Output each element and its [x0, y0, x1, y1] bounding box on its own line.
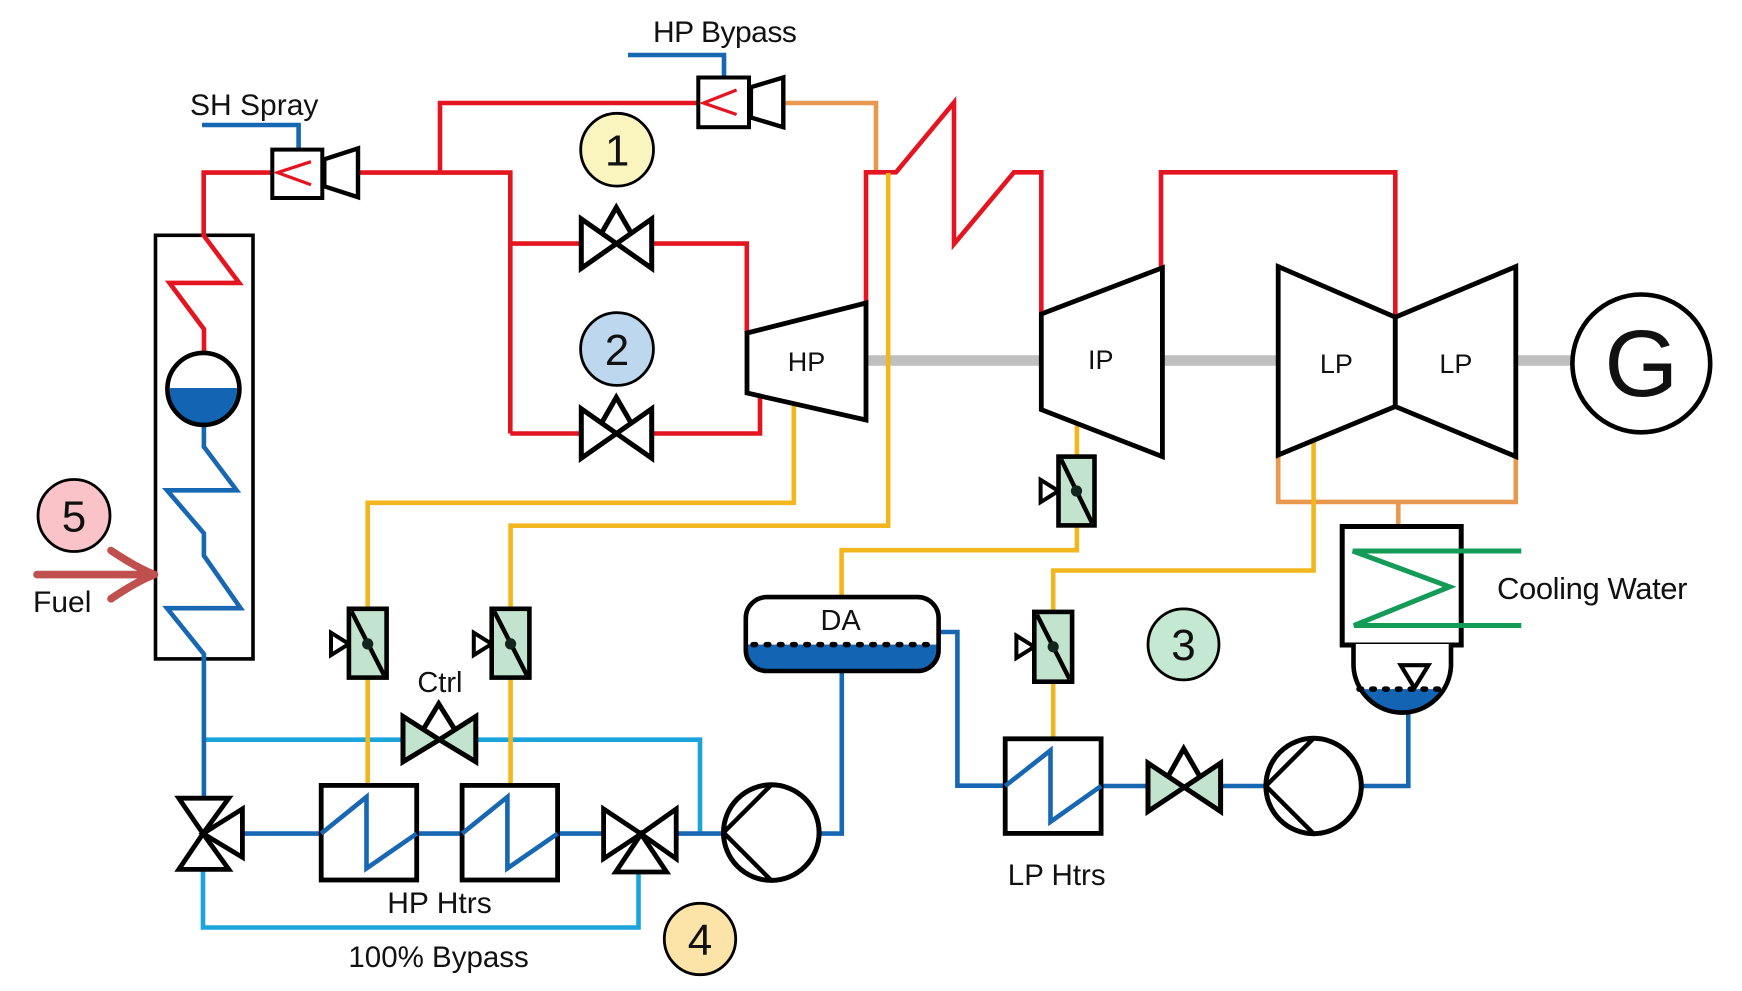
wire shaft LP-G [1515, 355, 1574, 366]
wire LP heater to condensate valve [1100, 784, 1149, 789]
wire main steam spray valve to valves junction [356, 173, 510, 434]
svg-text:HP Bypass: HP Bypass [653, 16, 796, 49]
wire HP bypass water line [628, 55, 724, 79]
cyan bypass pipes [203, 740, 700, 928]
wire boiler downcomer [202, 656, 207, 799]
marker circle 5 [38, 480, 110, 552]
wire LP exhaust header [1278, 454, 1516, 502]
svg-text:Cooling Water: Cooling Water [1497, 571, 1687, 606]
svg-text:4: 4 [688, 916, 712, 965]
dark blue water pipes [202, 55, 1408, 834]
extraction control valve HP1 [331, 609, 387, 678]
extraction control valve IP [1041, 457, 1095, 526]
wire IP extraction to deaerator [842, 423, 1077, 600]
three-way valve at boiler [179, 798, 243, 869]
SH spray attemperator [272, 148, 358, 198]
svg-text:2: 2 [605, 326, 629, 375]
wire HP bypass discharge [782, 103, 876, 170]
wire condensate valve to condensate pump [1220, 784, 1267, 789]
wire LP exhaust to condenser [1396, 502, 1401, 525]
condensate control valve [1148, 749, 1221, 812]
wire 100% bypass line [203, 868, 639, 928]
wire SH spray water line [202, 125, 299, 151]
LP heater [1005, 739, 1101, 834]
wire LP extraction to LP heater [1053, 440, 1313, 739]
wire pump valve to feed pump [675, 831, 724, 836]
svg-text:LP Htrs: LP Htrs [1008, 859, 1106, 892]
steam drum [167, 353, 239, 425]
wire HP heater 2 to pump valve [557, 831, 605, 836]
marker circle 1 [581, 113, 654, 186]
control valve Ctrl [403, 704, 476, 762]
marker circle 4 [664, 903, 735, 974]
svg-text:G: G [1604, 311, 1678, 417]
cooling water coil [1353, 551, 1522, 626]
svg-text:1: 1 [605, 127, 629, 176]
wire feed pump to deaerator [818, 669, 842, 834]
svg-text:5: 5 [62, 492, 86, 541]
wire condensate pump to hotwell [1361, 712, 1409, 786]
svg-text:IP: IP [1088, 345, 1114, 375]
turbine LP right [1395, 267, 1516, 457]
condenser [1342, 527, 1521, 646]
boiler superheater coil [170, 236, 240, 355]
wire valve 2 admission line [510, 396, 760, 434]
svg-text:SH Spray: SH Spray [190, 89, 318, 122]
deaerator DA [746, 597, 939, 671]
svg-text:Fuel: Fuel [33, 586, 91, 619]
svg-text:LP: LP [1320, 349, 1353, 379]
wire main steam boiler to spray valve [204, 173, 274, 237]
boiler evaporator coil [167, 424, 241, 660]
HP heater 2 [462, 785, 557, 880]
red steam pipes [204, 103, 1396, 434]
wire deaerator to LP heater [937, 632, 1006, 786]
svg-text:DA: DA [820, 605, 861, 637]
wire main steam branch up to HP bypass [440, 103, 700, 173]
svg-text:3: 3 [1171, 621, 1195, 670]
wire three-way valve to HP heater 1 [241, 831, 322, 836]
wire control valve line [203, 740, 700, 835]
condensate pump [1266, 738, 1361, 833]
wire hot reheat IP to LP [1161, 172, 1395, 318]
shaft [866, 355, 1574, 366]
yellow extraction pipes [368, 173, 1314, 785]
stop valve 1 [581, 208, 651, 269]
extraction control valve HP2 [474, 609, 530, 678]
marker circle 3 [1148, 609, 1219, 680]
orange pipes [782, 103, 1516, 525]
boiler [156, 235, 254, 659]
wire valve 1 admission line [510, 244, 747, 334]
wire cold reheat and reheater coil to IP [866, 103, 1041, 316]
stop valve 2 [581, 397, 651, 458]
three-way valve after HP heaters [604, 809, 677, 872]
feedwater pump [724, 785, 820, 881]
HP heater 1 [321, 785, 417, 880]
hotwell [1354, 644, 1452, 714]
marker circle 2 [581, 313, 654, 386]
wire cold reheat extraction to HP heater 2 [511, 173, 889, 785]
svg-text:HP Htrs: HP Htrs [387, 887, 491, 920]
turbine IP [1041, 268, 1162, 457]
turbine HP [747, 303, 866, 420]
svg-text:HP: HP [788, 347, 826, 377]
svg-text:Ctrl: Ctrl [417, 667, 462, 699]
fuel arrow [37, 551, 155, 599]
generator G [1572, 295, 1710, 433]
HP bypass attemperator [698, 78, 783, 128]
turbine LP left [1278, 267, 1395, 455]
svg-text:100% Bypass: 100% Bypass [348, 941, 528, 974]
wire shaft IP-LP [1162, 355, 1279, 366]
wire HP extraction to HP heater 1 [368, 403, 794, 785]
wire shaft HP-IP [866, 355, 1042, 366]
svg-text:LP: LP [1439, 349, 1472, 379]
wire HP heater 1 to HP heater 2 [416, 831, 463, 836]
extraction control valve LP [1016, 612, 1072, 682]
